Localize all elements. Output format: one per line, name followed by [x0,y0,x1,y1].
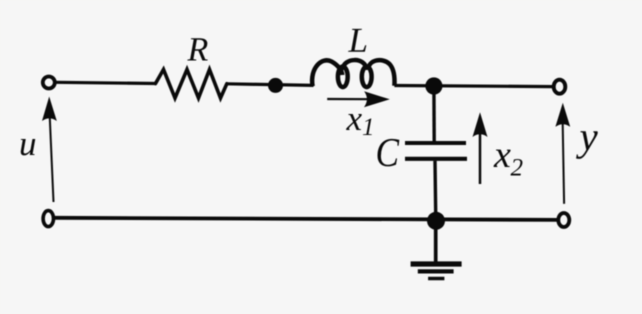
node A (junction dot) [268,78,283,93]
capacitor C top plate [405,141,466,145]
arrow x1 (inductor current) [327,91,390,107]
svg-text:u: u [19,124,37,163]
svg-text:R: R [186,31,208,68]
arrow u (input voltage) [42,97,57,203]
resistor R [156,70,227,99]
svg-text:1: 1 [362,114,375,141]
svg-text:C: C [375,129,399,175]
terminal: input bottom-left [43,211,53,227]
svg-text:y: y [575,113,598,159]
svg-text:x: x [345,99,362,138]
terminal: output bottom-right [558,213,569,227]
capacitor C bottom plate [405,157,467,161]
node C (junction dot, bottom rail) [427,212,445,230]
arrow y (output voltage) [555,103,570,204]
svg-text:L: L [347,21,368,60]
terminal: input top-left [43,77,55,89]
node B (junction dot) [425,77,442,94]
wire: resistor to node A and on to inductor [227,84,314,86]
inductor L [312,60,394,87]
svg-text:2: 2 [510,155,523,182]
arrow x2 (capacitor voltage) [473,112,488,184]
wire: inductor to node B and on to output terminal [394,86,553,87]
terminal: output top-right [554,80,566,94]
wire: bottom rail [54,218,557,220]
wire: node B down to capacitor top plate [432,86,436,142]
ground [411,228,462,279]
svg-text:x: x [493,134,511,176]
wire: top rail, input terminal to resistor [56,82,157,83]
wire: capacitor bottom plate down to node C [433,161,437,221]
